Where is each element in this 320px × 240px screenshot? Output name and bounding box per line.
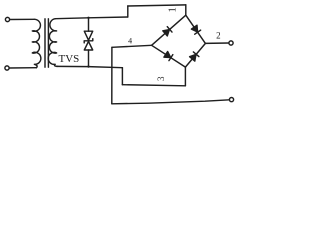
bridge edge lower-right (3 to 2) [185,43,205,67]
node: TVS top junction [87,17,89,19]
wire: rise into bridge bottom vertex [184,67,186,86]
transformer T1 primary winding [32,19,41,67]
diode D2 upper-right [191,25,200,34]
TVS diode upper triangle [84,31,92,40]
transformer core line right [47,19,49,67]
wire: run under bridge to node 3 [122,85,185,86]
diode D4 lower-right [189,52,198,61]
terminal: AC input bottom-left [5,66,9,70]
wire: bridge node 2 to output top terminal [205,42,229,44]
node: TVS bottom junction [87,65,89,67]
TVS diode lower triangle [84,41,92,50]
diode D1 upper-left [163,27,172,36]
terminal: DC output bottom-right (-) [229,98,233,102]
wire: TVS lower lead [88,50,90,67]
wire: bridge node 4 to left corner [112,45,152,47]
bridge edge upper-right (1 to 2) [186,15,206,43]
wire: vertical step up [127,6,129,17]
svg-text:4: 4 [128,36,132,45]
diode D3 lower-left [164,51,173,60]
wire: input top terminal to transformer primary [10,18,35,20]
wire: transformer primary to input bottom terminal [9,67,36,69]
wire: secondary bottom run to corner [58,66,123,67]
TVS diode middle bar with zener wings [84,39,93,43]
wire: long vertical drop (DC minus) [111,47,113,104]
terminal: DC output top-right (+) [229,41,233,45]
transformer core line left [44,19,46,67]
wire: bottom run to output bottom terminal [112,100,230,104]
wire: top run to bridge AC node 1 [128,5,186,6]
svg-text:TVS: TVS [59,53,80,65]
terminal: AC input top-left [5,17,9,21]
transformer T1 secondary winding [48,19,58,67]
svg-text:3: 3 [156,76,166,81]
wire: drop into bridge top vertex [185,5,187,15]
svg-text:2: 2 [216,31,221,41]
bridge edge lower-left (4 to 3) [152,45,186,67]
wire: secondary top to step corner [55,17,127,19]
wire: TVS upper lead [88,18,90,31]
svg-text:1: 1 [168,7,179,12]
wire: down jog [121,68,123,85]
bridge edge upper-left (4 to 1) [152,15,186,45]
